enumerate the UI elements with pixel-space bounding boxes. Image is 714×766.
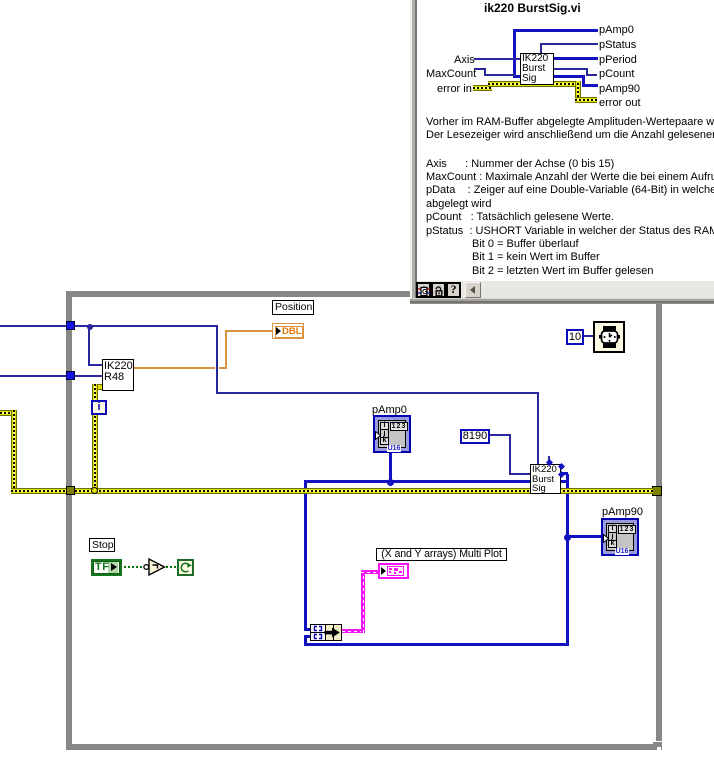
thick array wire: main horizontal (304, 480, 530, 483)
toolbar strip (417, 281, 714, 298)
iteration terminal i (91, 400, 107, 415)
pane node IK220 Burst Sig (520, 53, 554, 85)
subVI IK220 R48 (102, 359, 134, 391)
array indicator pAmp0 (373, 415, 411, 453)
while loop border top (66, 291, 662, 297)
pink cluster wire from bundle (342, 629, 365, 633)
pane wire MaxCount (474, 68, 486, 70)
subVI IK220 BurstSig (main diagram) (530, 464, 561, 494)
thick array wire: bottom-left elbow (304, 635, 307, 646)
error tunnel left (olive) (66, 486, 75, 495)
junction dot pAmp90 (564, 534, 571, 541)
pink cluster wire into terminal (361, 570, 378, 574)
pane wire pStatus (540, 43, 598, 45)
wire branch into IK220 R48 (88, 364, 104, 366)
wait until next ms multiple (593, 321, 625, 353)
wire W2 inside loop into IK220 R48 (75, 375, 103, 377)
thick array wire: pAmp0 stem (389, 453, 392, 483)
thick array wire: node right stub (561, 480, 567, 483)
wire W1 vertical into BurstSig top (537, 393, 539, 464)
NOT gate (141, 557, 167, 577)
error wire stub out of R48 (92, 384, 102, 390)
label (X and Y arrays) Multi Plot (376, 548, 507, 561)
orange wire from R48 (gap at blue crossing) (134, 367, 215, 369)
thick array wire: right vertical (566, 474, 569, 646)
bundle node (310, 624, 342, 641)
green boolean dotted wire TF to NOT (124, 566, 144, 568)
thick array wire: stub into bundle input1 (304, 628, 311, 631)
wire W1 (axis scalar) outside loop (0, 325, 66, 327)
wire W1 horizontal to BurstSig column (216, 392, 539, 394)
error tunnel right (olive) (652, 486, 662, 496)
constant 8190 (460, 429, 490, 444)
while loop border left (66, 291, 72, 750)
error wire to loop tunnel (11, 488, 66, 494)
label Stop (89, 538, 115, 552)
pane labels (599, 24, 634, 36)
boolean TF terminal (91, 559, 122, 576)
toolbar buttons (416, 282, 431, 298)
BurstSig diamond right1 (558, 463, 565, 470)
array indicator pAmp90 (601, 518, 639, 556)
orange wire vertical up (225, 330, 227, 369)
wire branch down to IK220 R48 (88, 326, 90, 366)
window left border (410, 0, 412, 303)
while loop border right (656, 291, 662, 741)
thick array wire: left vertical (304, 480, 307, 631)
pane wire pCount (553, 68, 588, 70)
thick array wire: bottom horizontal (304, 643, 569, 646)
label pAmp0 (372, 404, 407, 416)
thick array wire: dot2 stub (562, 472, 568, 475)
wire W1 inside loop to corner (75, 325, 218, 327)
label pAmp90 (602, 506, 643, 518)
thick array wire: pAmp90 branch (567, 535, 601, 538)
constant 10 (566, 329, 584, 345)
tunnel T1 blue (66, 321, 75, 330)
orange wire into DBL (225, 330, 273, 332)
cluster indicator Multi Plot (378, 563, 409, 579)
BurstSig node top stub (548, 456, 550, 462)
title ik220 BurstSig.vi (484, 1, 581, 15)
while loop corner step (653, 742, 662, 745)
pane wire pAmp90 (thick) (553, 75, 585, 78)
error wire vertical at far left (11, 410, 17, 494)
error wire entering at left (0, 410, 17, 416)
pane error wire in (473, 85, 492, 91)
pane wire Axis (474, 58, 520, 60)
pane error wire out (575, 97, 597, 103)
wire 10 to wait (584, 335, 593, 337)
thick array wire: stub into bundle input2 (304, 635, 311, 638)
window bottom border (410, 298, 714, 299)
error wire across loop (75, 488, 653, 494)
scrollbar left arrow (465, 282, 481, 298)
pane wire pPeriod (thick) (553, 57, 598, 60)
wire W1 vertical down (216, 326, 218, 393)
pane wire pAmp0 (thick) (513, 29, 598, 32)
svg-text:G: G (422, 289, 428, 296)
error wire vertical from R48 down (92, 384, 98, 491)
indicator DBL (272, 323, 304, 339)
while loop border bottom (66, 744, 662, 750)
junction W1 branch dot (87, 324, 93, 330)
loop condition terminal (177, 559, 194, 576)
error wire junction ring (91, 487, 98, 494)
label Position (272, 300, 314, 315)
green boolean dotted wire NOT to loop condition (166, 566, 177, 568)
pink cluster wire vertical (361, 570, 365, 633)
tunnel T2 blue (66, 371, 75, 380)
wire 8190 to BurstSig (490, 434, 511, 436)
wire W2 (maxcount) outside loop (0, 375, 66, 377)
BurstSig diamond right2 (558, 471, 565, 478)
pane error wire step down (575, 81, 581, 103)
BurstSig diamond top (546, 459, 553, 466)
description text (426, 116, 714, 143)
junction dot pAmp0 (387, 479, 394, 486)
